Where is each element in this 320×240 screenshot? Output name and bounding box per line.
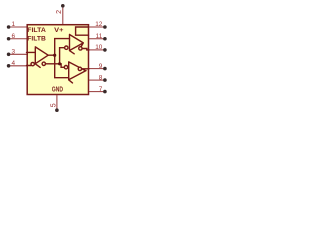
op-amp A1 triangle [35, 47, 48, 64]
junction dot J1 (A1 output / net A) [53, 54, 56, 57]
pin 1 end dot [7, 25, 11, 29]
svg-text:12: 12 [95, 21, 103, 28]
wire net line A [55, 39, 70, 78]
wire A3 output to pin 9 [82, 68, 89, 70]
svg-text:8: 8 [99, 74, 103, 81]
wire pin 12 internal route [76, 27, 89, 35]
op-amp A2 triangle [70, 35, 84, 51]
bubble A3 inverting input [64, 66, 67, 69]
pin 2 wire (V+ top) [62, 8, 64, 24]
bubble A2 inverting input [65, 46, 68, 49]
pin 10 end dot [103, 48, 107, 52]
bubble A1 inverting input (pin 4) [31, 62, 34, 65]
svg-text:7: 7 [99, 86, 103, 93]
svg-text:5: 5 [51, 103, 58, 107]
pin 2 end dot [61, 4, 65, 8]
svg-text:11: 11 [96, 33, 103, 40]
pin 7 end dot [103, 90, 107, 94]
wire pin4 internal stub [27, 65, 32, 67]
pin 11 end dot [103, 37, 107, 41]
wire riser to A2 input bubble [60, 48, 65, 64]
pin 9 end dot [103, 67, 107, 71]
svg-text:V+: V+ [54, 27, 64, 34]
pin 3 end dot [7, 53, 11, 57]
pin 8 end dot [103, 78, 107, 82]
pin 6 end dot [7, 37, 11, 41]
wire A1 output [48, 54, 55, 56]
op-amp A1 bottom stub [35, 64, 40, 68]
svg-text:GND: GND [52, 84, 63, 93]
op-amp A3 bottom stub [69, 80, 73, 83]
svg-text:1: 1 [12, 21, 16, 28]
bubble A1 feedback [42, 62, 45, 65]
svg-text:9: 9 [99, 63, 103, 70]
wire A2 output to pin 10 [82, 49, 89, 50]
pin 5 end dot [55, 108, 59, 112]
pin 7 wire [89, 91, 103, 93]
wire feedback with elbow [46, 64, 65, 68]
pin 12 end dot [103, 25, 107, 29]
bubble A2 output [79, 47, 82, 50]
svg-text:FILTB: FILTB [27, 35, 46, 42]
pin 12 wire [89, 26, 103, 28]
svg-text:FILTA: FILTA [27, 27, 46, 34]
pin 3 wire [10, 53, 26, 55]
wire pin3 border connector [26, 52, 28, 54]
pin 8 wire [89, 79, 103, 81]
op-amp A2 bottom stub [70, 51, 75, 54]
pin 4 wire [10, 65, 26, 67]
IC body U1 [27, 25, 88, 95]
pin 6 wire (FILTB) [10, 38, 26, 40]
junction dot J2 (feedback / riser) [58, 62, 61, 65]
svg-text:2: 2 [56, 10, 63, 14]
wire pin3 internal input [27, 51, 36, 53]
bubble A3 slope output [78, 67, 81, 70]
pin 11 wire [89, 38, 103, 40]
svg-text:4: 4 [12, 60, 16, 67]
pin 4 end dot [7, 64, 11, 68]
svg-text:3: 3 [12, 49, 16, 56]
pin 1 wire (FILTA) [10, 26, 26, 28]
pin 9 wire [89, 68, 103, 70]
svg-text:10: 10 [95, 44, 103, 51]
pin 5 wire (GND bottom) [56, 95, 58, 109]
pin 10 wire [89, 49, 103, 51]
op-amp A3 triangle [69, 62, 86, 80]
svg-text:6: 6 [12, 33, 16, 40]
